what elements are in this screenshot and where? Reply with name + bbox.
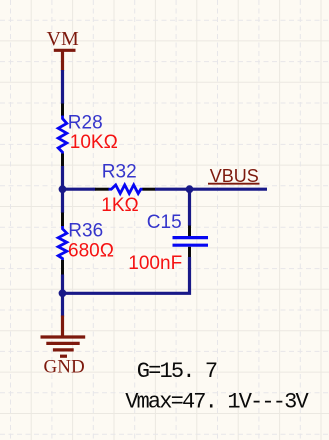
svg-text:680Ω: 680Ω [68, 241, 114, 262]
wire junction B to C15 [188, 188, 191, 227]
wire junction A to R36 [61, 189, 64, 213]
resistor R32 body [109, 185, 143, 194]
capacitor C15 plate 1 [173, 236, 209, 239]
wire VM to R28 [61, 70, 64, 104]
resistor R28 pin 1 [61, 104, 64, 117]
svg-text:R28: R28 [68, 112, 103, 133]
junction A dot [59, 185, 67, 193]
wire R28 to junction A [61, 166, 64, 190]
ground bar 2 [46, 342, 79, 345]
svg-text:GND: GND [44, 357, 85, 378]
svg-text:VM: VM [47, 28, 79, 50]
resistor R32 pin 1 [95, 188, 109, 191]
capacitor C15 plate 2 [173, 244, 209, 247]
svg-text:Vmax=47. 1V---3V: Vmax=47. 1V---3V [125, 389, 309, 414]
junction B dot [186, 185, 194, 193]
power port VM bar symbol [54, 50, 76, 71]
resistor R36 pin 2 [61, 260, 64, 275]
junction C dot [59, 289, 67, 297]
resistor R36 pin 1 [61, 213, 64, 227]
ground bar 4 [60, 355, 67, 358]
wire R36 to junction C [61, 275, 64, 295]
resistor R32 pin 2 [143, 188, 156, 191]
ground stem [61, 316, 64, 337]
svg-text:C15: C15 [147, 212, 182, 233]
ground bar 3 [53, 348, 74, 351]
wire junction A to R32 [63, 188, 96, 191]
svg-text:R32: R32 [102, 161, 137, 182]
resistor R28 body [58, 116, 67, 154]
ground bar 1 [41, 335, 86, 338]
wire C15 to bottom rail [61, 257, 190, 293]
capacitor C15 pin 1 [188, 226, 191, 237]
svg-text:R36: R36 [68, 220, 103, 241]
wire junction C to ground [61, 293, 64, 316]
svg-text:100nF: 100nF [128, 253, 182, 274]
resistor R36 body [58, 226, 67, 260]
svg-text:G=15. 7: G=15. 7 [137, 359, 217, 384]
resistor R28 pin 2 [61, 154, 64, 167]
svg-text:10KΩ: 10KΩ [70, 132, 118, 153]
capacitor C15 pin 2 [188, 247, 191, 258]
net label VBUS underline [208, 183, 260, 185]
svg-text:1KΩ: 1KΩ [101, 195, 138, 216]
wire junction B to VBUS end [190, 188, 268, 191]
wire R32 to junction B [155, 188, 191, 191]
